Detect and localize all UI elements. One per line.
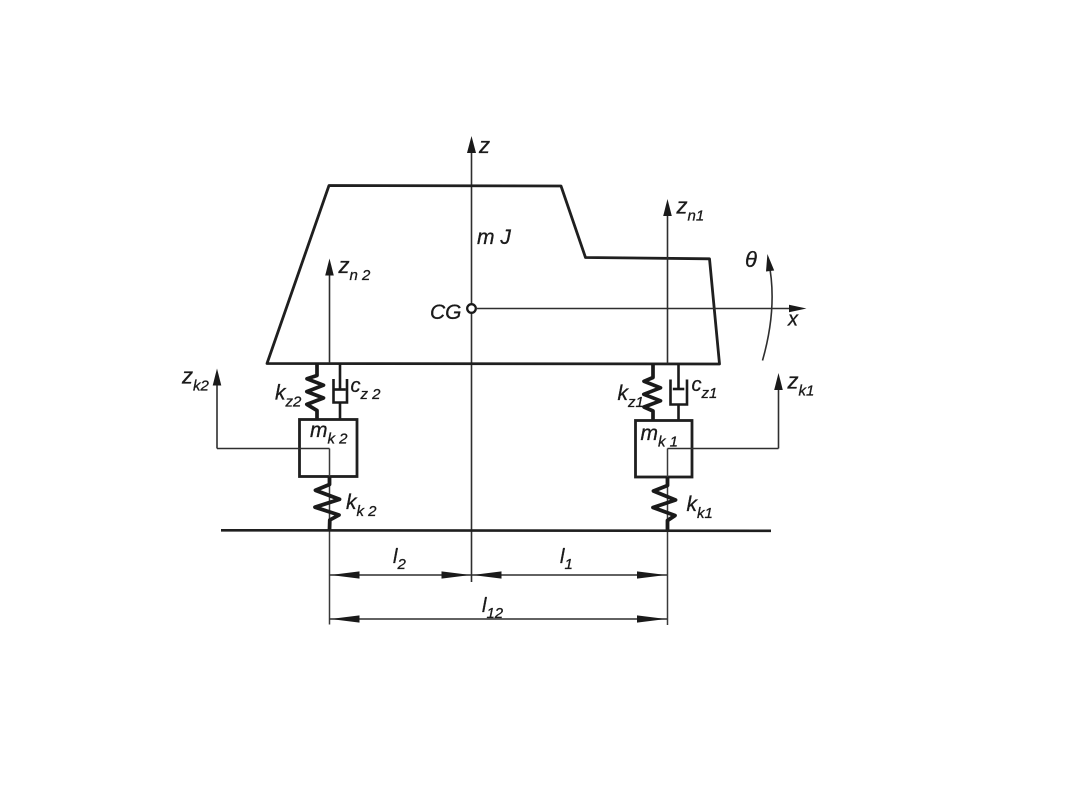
svg-text:CG: CG: [430, 301, 462, 324]
z axis arrowhead: [467, 136, 476, 153]
z_k2 arrow: [216, 384, 218, 449]
x axis arrowhead: [789, 305, 807, 313]
spring k_z1: [644, 364, 661, 421]
theta arc arrowhead: [766, 254, 774, 272]
dimension line l12: [330, 618, 668, 620]
svg-text:x: x: [787, 309, 799, 331]
right wheel center line: [667, 449, 669, 626]
theta arc: [763, 261, 773, 361]
tire spring k_k1: [653, 477, 676, 531]
svg-text:m J: m J: [477, 226, 511, 249]
dimension line l1: [472, 574, 668, 576]
connector z_k2 horizontal: [217, 448, 330, 450]
left wheel center line: [329, 449, 331, 625]
dimension line l2: [330, 574, 472, 576]
mass box m_k2: [300, 420, 358, 477]
z_n2 arrow: [329, 274, 331, 363]
connector z_k1 horizontal: [668, 448, 779, 450]
z axis vertical line: [471, 150, 473, 582]
svg-text:θ: θ: [745, 247, 757, 272]
tire spring k_k2: [315, 477, 340, 530]
z_k1 arrow: [778, 389, 780, 449]
damper c_z2: [339, 363, 342, 390]
svg-text:z: z: [478, 133, 490, 158]
x axis line: [476, 308, 792, 310]
vehicle body outline: [267, 186, 720, 365]
z_n1 arrow: [667, 215, 669, 364]
ground line: [221, 529, 771, 532]
mass box m_k1: [636, 421, 693, 478]
damper c_z1: [677, 364, 680, 389]
spring k_z2: [307, 363, 324, 420]
node CG circle: [467, 304, 476, 313]
